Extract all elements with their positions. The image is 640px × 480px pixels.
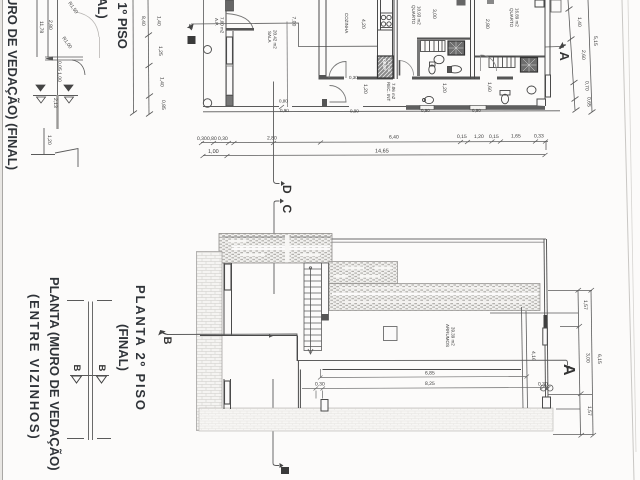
kitchen counter outline (378, 0, 393, 56)
closet1 with bars (421, 41, 446, 52)
svg-text:QUARTO: QUARTO (411, 5, 416, 25)
right wall window (543, 328, 548, 345)
svg-text:8,40: 8,40 (140, 16, 146, 26)
B marker left end: arrow down (188, 24, 193, 30)
door bath1 leaf (399, 60, 401, 76)
left room window lower (225, 381, 231, 404)
wall double line vertical (89, 302, 93, 441)
svg-text:AL): AL) (95, 0, 110, 19)
svg-text:(FINAL): (FINAL) (116, 324, 131, 371)
left room wall lower (224, 379, 231, 409)
dim line 11,78 (36, 0, 38, 57)
arrow D (281, 181, 285, 186)
staircase (304, 263, 322, 351)
door leaf sala corridor (322, 99, 327, 107)
small arrow on B line (269, 334, 273, 338)
veranda column 1 (204, 46, 212, 54)
svg-text:1,40: 1,40 (576, 17, 582, 27)
bottom door window rect (321, 400, 328, 412)
left house wall inner line (232, 31, 234, 106)
door leaf top-left (226, 28, 254, 31)
sink2 (527, 86, 536, 94)
main band white gap line 3 (345, 301, 530, 303)
wc1 (429, 62, 435, 74)
B marker left (71, 365, 82, 384)
row1 end vertical (545, 142, 547, 151)
bottom wall window gap 3 (420, 105, 434, 109)
section line D upper (274, 82, 280, 184)
row2 ticks (201, 153, 548, 158)
stairwell right wall (322, 263, 329, 320)
wall section vertical line left (47, 0, 49, 57)
cross line at B (70, 375, 109, 377)
svg-text:. 1º PISO: . 1º PISO (115, 0, 130, 49)
right wall bottom window rect (543, 397, 551, 408)
wc2 (500, 91, 510, 104)
bottom wall thick right part (406, 105, 545, 110)
svg-text:1,65: 1,65 (511, 134, 521, 140)
plan2 right wall (544, 239, 548, 398)
stove burners (381, 13, 393, 28)
svg-text:0,80: 0,80 (207, 136, 217, 142)
svg-text:C: C (280, 205, 294, 214)
wall line y369 (323, 369, 522, 371)
right wall black segment (544, 315, 548, 328)
A arrowhead plan2 (565, 366, 570, 370)
svg-text:B: B (161, 337, 173, 345)
svg-text:REC. INT: REC. INT (386, 82, 391, 102)
wall section vertical line right (57, 0, 59, 96)
svg-text:39.39 m2: 39.39 m2 (451, 327, 456, 346)
svg-text:0,30: 0,30 (349, 75, 358, 80)
svg-text:6,15: 6,15 (596, 354, 602, 364)
svg-text:2,80: 2,80 (47, 20, 53, 30)
W1 end cap (319, 75, 327, 80)
inner right wall (522, 307, 528, 408)
svg-text:10.93 m2: 10.93 m2 (417, 6, 422, 25)
ticks (566, 7, 580, 113)
chain outer line 5,15 (588, 0, 592, 112)
svg-text:2,80: 2,80 (267, 136, 277, 142)
bidet1 (448, 66, 462, 73)
svg-text:0,30: 0,30 (315, 382, 325, 388)
bottom-left room wall lines (200, 336, 521, 409)
svg-text:QUARTO: QUARTO (509, 8, 514, 28)
svg-text:0,15: 0,15 (457, 134, 467, 140)
svg-text:0,30: 0,30 (197, 136, 207, 142)
svg-text:4,20: 4,20 (360, 19, 366, 29)
left wall window 2 (227, 66, 233, 95)
bottom end dashes (67, 438, 111, 440)
svg-text:1,00: 1,00 (208, 149, 219, 155)
svg-text:0,30: 0,30 (538, 382, 548, 388)
terrace top edge line (332, 238, 546, 240)
wall W2 (394, 0, 397, 79)
bottom wall window gap 1 (279, 106, 292, 108)
R1,50 arc tail line (99, 37, 101, 58)
ticks inner chain (145, 33, 153, 117)
bottom wall jog right end (537, 99, 546, 106)
left house wall outer line (225, 0, 227, 106)
left hatch strip (197, 252, 223, 431)
wall W3 (471, 0, 475, 79)
svg-text:1.42 m2: 1.42 m2 (387, 59, 391, 72)
outer chain line (591, 290, 593, 435)
main hatch band (329, 284, 540, 311)
tick outer (589, 110, 596, 115)
veranda edge line (203, 0, 205, 104)
svg-text:DESP: DESP (382, 59, 387, 70)
wall W1 sala/cozinha (319, 0, 326, 79)
ground level line (33, 95, 78, 97)
svg-text:1,40: 1,40 (156, 16, 162, 26)
main band white gap line (332, 293, 538, 295)
svg-text:URO DE VEDAÇÃO) (FINAL): URO DE VEDAÇÃO) (FINAL) (5, 0, 20, 170)
plan2 dim line 8,25 (302, 386, 551, 399)
svg-text:3,00: 3,00 (431, 9, 437, 19)
svg-text:0,70: 0,70 (584, 81, 590, 91)
corridor wall seg3 (412, 77, 480, 80)
bottom veranda line inner (203, 111, 560, 112)
svg-text:0,90: 0,90 (421, 108, 430, 113)
svg-text:PLANTA (MURO DE VEDAÇÃO): PLANTA (MURO DE VEDAÇÃO) (47, 277, 62, 471)
right wall bottom circles (541, 385, 547, 391)
bottom wall window gap 2 (349, 106, 363, 108)
level marker 2 (64, 85, 74, 103)
door arc top-left (226, 14, 254, 31)
section line B-A plan2 (168, 334, 568, 365)
tick sala bottom (279, 105, 284, 109)
svg-text:16.89 m2: 16.89 m2 (515, 8, 520, 27)
chain line inner (148, 0, 149, 114)
corridor wall seg1 (326, 77, 344, 80)
sala interior vertical line (286, 22, 289, 108)
svg-text:A: A (557, 52, 572, 62)
svg-text:ARRUMOS: ARRUMOS (445, 324, 450, 347)
svg-text:3,00: 3,00 (585, 353, 591, 363)
svg-text:1,40: 1,40 (159, 77, 165, 87)
door arc sala corridor (330, 86, 347, 103)
svg-text:8,25: 8,25 (425, 381, 435, 387)
left wall window 1 (227, 37, 233, 64)
door bath1 arc (400, 61, 414, 76)
wall y335 left part dark (200, 335, 297, 337)
section A marker top right: hook (560, 43, 567, 49)
svg-text:0,30: 0,30 (218, 136, 228, 142)
svg-text:4,16: 4,16 (530, 351, 536, 361)
scan right paper edge lines (622, 0, 634, 480)
top end dashes (67, 300, 112, 302)
svg-text:1,57: 1,57 (586, 406, 592, 416)
section line C lower (274, 201, 280, 294)
svg-text:5,15: 5,15 (592, 36, 598, 46)
closet2 with bars (489, 57, 515, 68)
svg-text:PLANTA 2º PISO: PLANTA 2º PISO (133, 285, 148, 412)
extension lines (490, 291, 594, 435)
quarto2 bath top wall (475, 56, 546, 58)
top edge fixture rects (457, 0, 466, 6)
tick 8,40 end (130, 111, 137, 116)
upper step white dashes (334, 267, 392, 278)
svg-text:COZINHA: COZINHA (344, 13, 349, 33)
plan2 dim line 6,85 (318, 369, 529, 380)
svg-text:0,15: 0,15 (489, 134, 499, 140)
corridor wall seg4 (497, 77, 513, 80)
svg-text:B: B (96, 365, 107, 372)
dim row2 line (203, 155, 545, 156)
bath1 top wall (417, 38, 470, 40)
svg-text:2,60: 2,60 (580, 50, 586, 60)
chain inner line (568, 0, 575, 110)
inner ticks (576, 288, 585, 438)
left wall solid bottom (226, 96, 233, 107)
row1 ticks (199, 140, 548, 146)
wall x298 vertical (298, 361, 300, 408)
dim row1 line (201, 142, 548, 143)
chain line 8,40 (132, 0, 135, 113)
svg-text:6,85: 6,85 (425, 371, 435, 377)
svg-text:0,90: 0,90 (472, 108, 481, 113)
sloped grade line (55, 149, 78, 168)
bath1 left wall (417, 40, 420, 76)
section line C below plan2 (273, 379, 279, 466)
svg-text:7.06 m2: 7.06 m2 (391, 83, 396, 100)
B marker right (96, 365, 107, 384)
top-left wall cut rect (226, 0, 234, 11)
right wall plan1 (545, 0, 550, 99)
arrow C bottom (280, 463, 284, 468)
stair direction line+arrow (308, 267, 313, 354)
top cap double line (45, 57, 83, 60)
wall jog down (297, 336, 299, 362)
arrow C (280, 199, 284, 204)
dim 1,20 vertical (43, 128, 45, 154)
svg-text:1,25: 1,25 (157, 46, 163, 56)
B letter left end (188, 36, 196, 44)
top-left hatch block (219, 234, 332, 264)
level marker 1 (36, 85, 46, 103)
top edge fixture 2 (487, 0, 494, 4)
svg-text:1,57: 1,57 (582, 300, 588, 310)
svg-text:A.P.: A.P. (214, 18, 219, 26)
wc top fixture (423, 96, 434, 103)
svg-text:2,13: 2,13 (52, 98, 58, 108)
sink top right (551, 0, 561, 12)
svg-text:1,20: 1,20 (474, 134, 484, 140)
below-grade wall grey bar (56, 95, 58, 129)
svg-text:7,00 m2: 7,00 m2 (220, 17, 225, 34)
svg-text:1,20: 1,20 (362, 84, 368, 94)
top-left hatch inner line (232, 247, 330, 250)
svg-text:0,85: 0,85 (160, 100, 166, 110)
door arc cozinha (329, 61, 346, 78)
left room window upper (225, 264, 232, 290)
svg-text:B: B (71, 365, 82, 372)
svg-text:14,65: 14,65 (375, 149, 389, 155)
svg-text:SALA: SALA (267, 31, 272, 43)
B-A horizontal right resume (545, 46, 560, 49)
corridor wall seg2 (357, 77, 393, 80)
right wall window (546, 75, 551, 97)
B-A horizontal left (191, 23, 377, 47)
svg-text:6,40: 6,40 (389, 135, 399, 141)
shower1 dark square (448, 41, 465, 55)
bottom wall window gap 4 (470, 105, 486, 109)
svg-text:(ENTRE VIZINHOS): (ENTRE VIZINHOS) (27, 294, 42, 441)
chimney square (384, 327, 398, 341)
shower2 dark square (521, 58, 538, 73)
section line B-A through plan1 (191, 23, 560, 47)
svg-text:1,20: 1,20 (441, 83, 447, 93)
svg-text:0,65: 0,65 (586, 97, 592, 107)
svg-text:0,90: 0,90 (350, 109, 359, 114)
svg-text:0,05 1,00: 0,05 1,00 (56, 61, 62, 82)
top-left block white gaps (228, 235, 320, 262)
R1,00 arc (72, 60, 85, 75)
DESP hatched pantry (378, 56, 394, 78)
top-left hatch outline line (222, 236, 331, 238)
right wall top rects (535, 0, 544, 7)
B hook marker plan2 (159, 331, 168, 335)
door arc quarto2 (481, 55, 497, 71)
svg-text:1,60: 1,60 (486, 82, 492, 92)
svg-text:0,90: 0,90 (280, 108, 289, 113)
upper hatch step (329, 262, 398, 284)
arrow left on cap (45, 57, 53, 61)
bottom dotted hatch band (199, 408, 553, 431)
inner chain line (578, 290, 581, 435)
R1,50 arc faint (76, 12, 99, 37)
main band white gap line 2 (340, 287, 520, 289)
svg-text:0,33: 0,33 (534, 134, 544, 140)
scan left edge shadow (0, 0, 2, 480)
svg-text:D: D (280, 185, 294, 194)
bottom veranda line outer (203, 106, 407, 108)
sink1 (434, 55, 444, 63)
lower ground line (31, 154, 55, 156)
svg-text:20.42 m2: 20.42 m2 (273, 30, 278, 49)
svg-text:0,80: 0,80 (279, 99, 288, 104)
left room wall upper (224, 263, 232, 335)
svg-text:2,80: 2,80 (484, 19, 490, 29)
svg-text:7,00: 7,00 (291, 17, 297, 27)
stairwell wall cap (322, 314, 329, 321)
veranda column 2 (203, 99, 211, 107)
letter bottom cut (281, 467, 289, 474)
svg-text:1,20: 1,20 (46, 135, 52, 145)
svg-text:A: A (560, 364, 577, 376)
outer ticks (589, 288, 597, 438)
svg-text:11,78: 11,78 (38, 21, 44, 33)
